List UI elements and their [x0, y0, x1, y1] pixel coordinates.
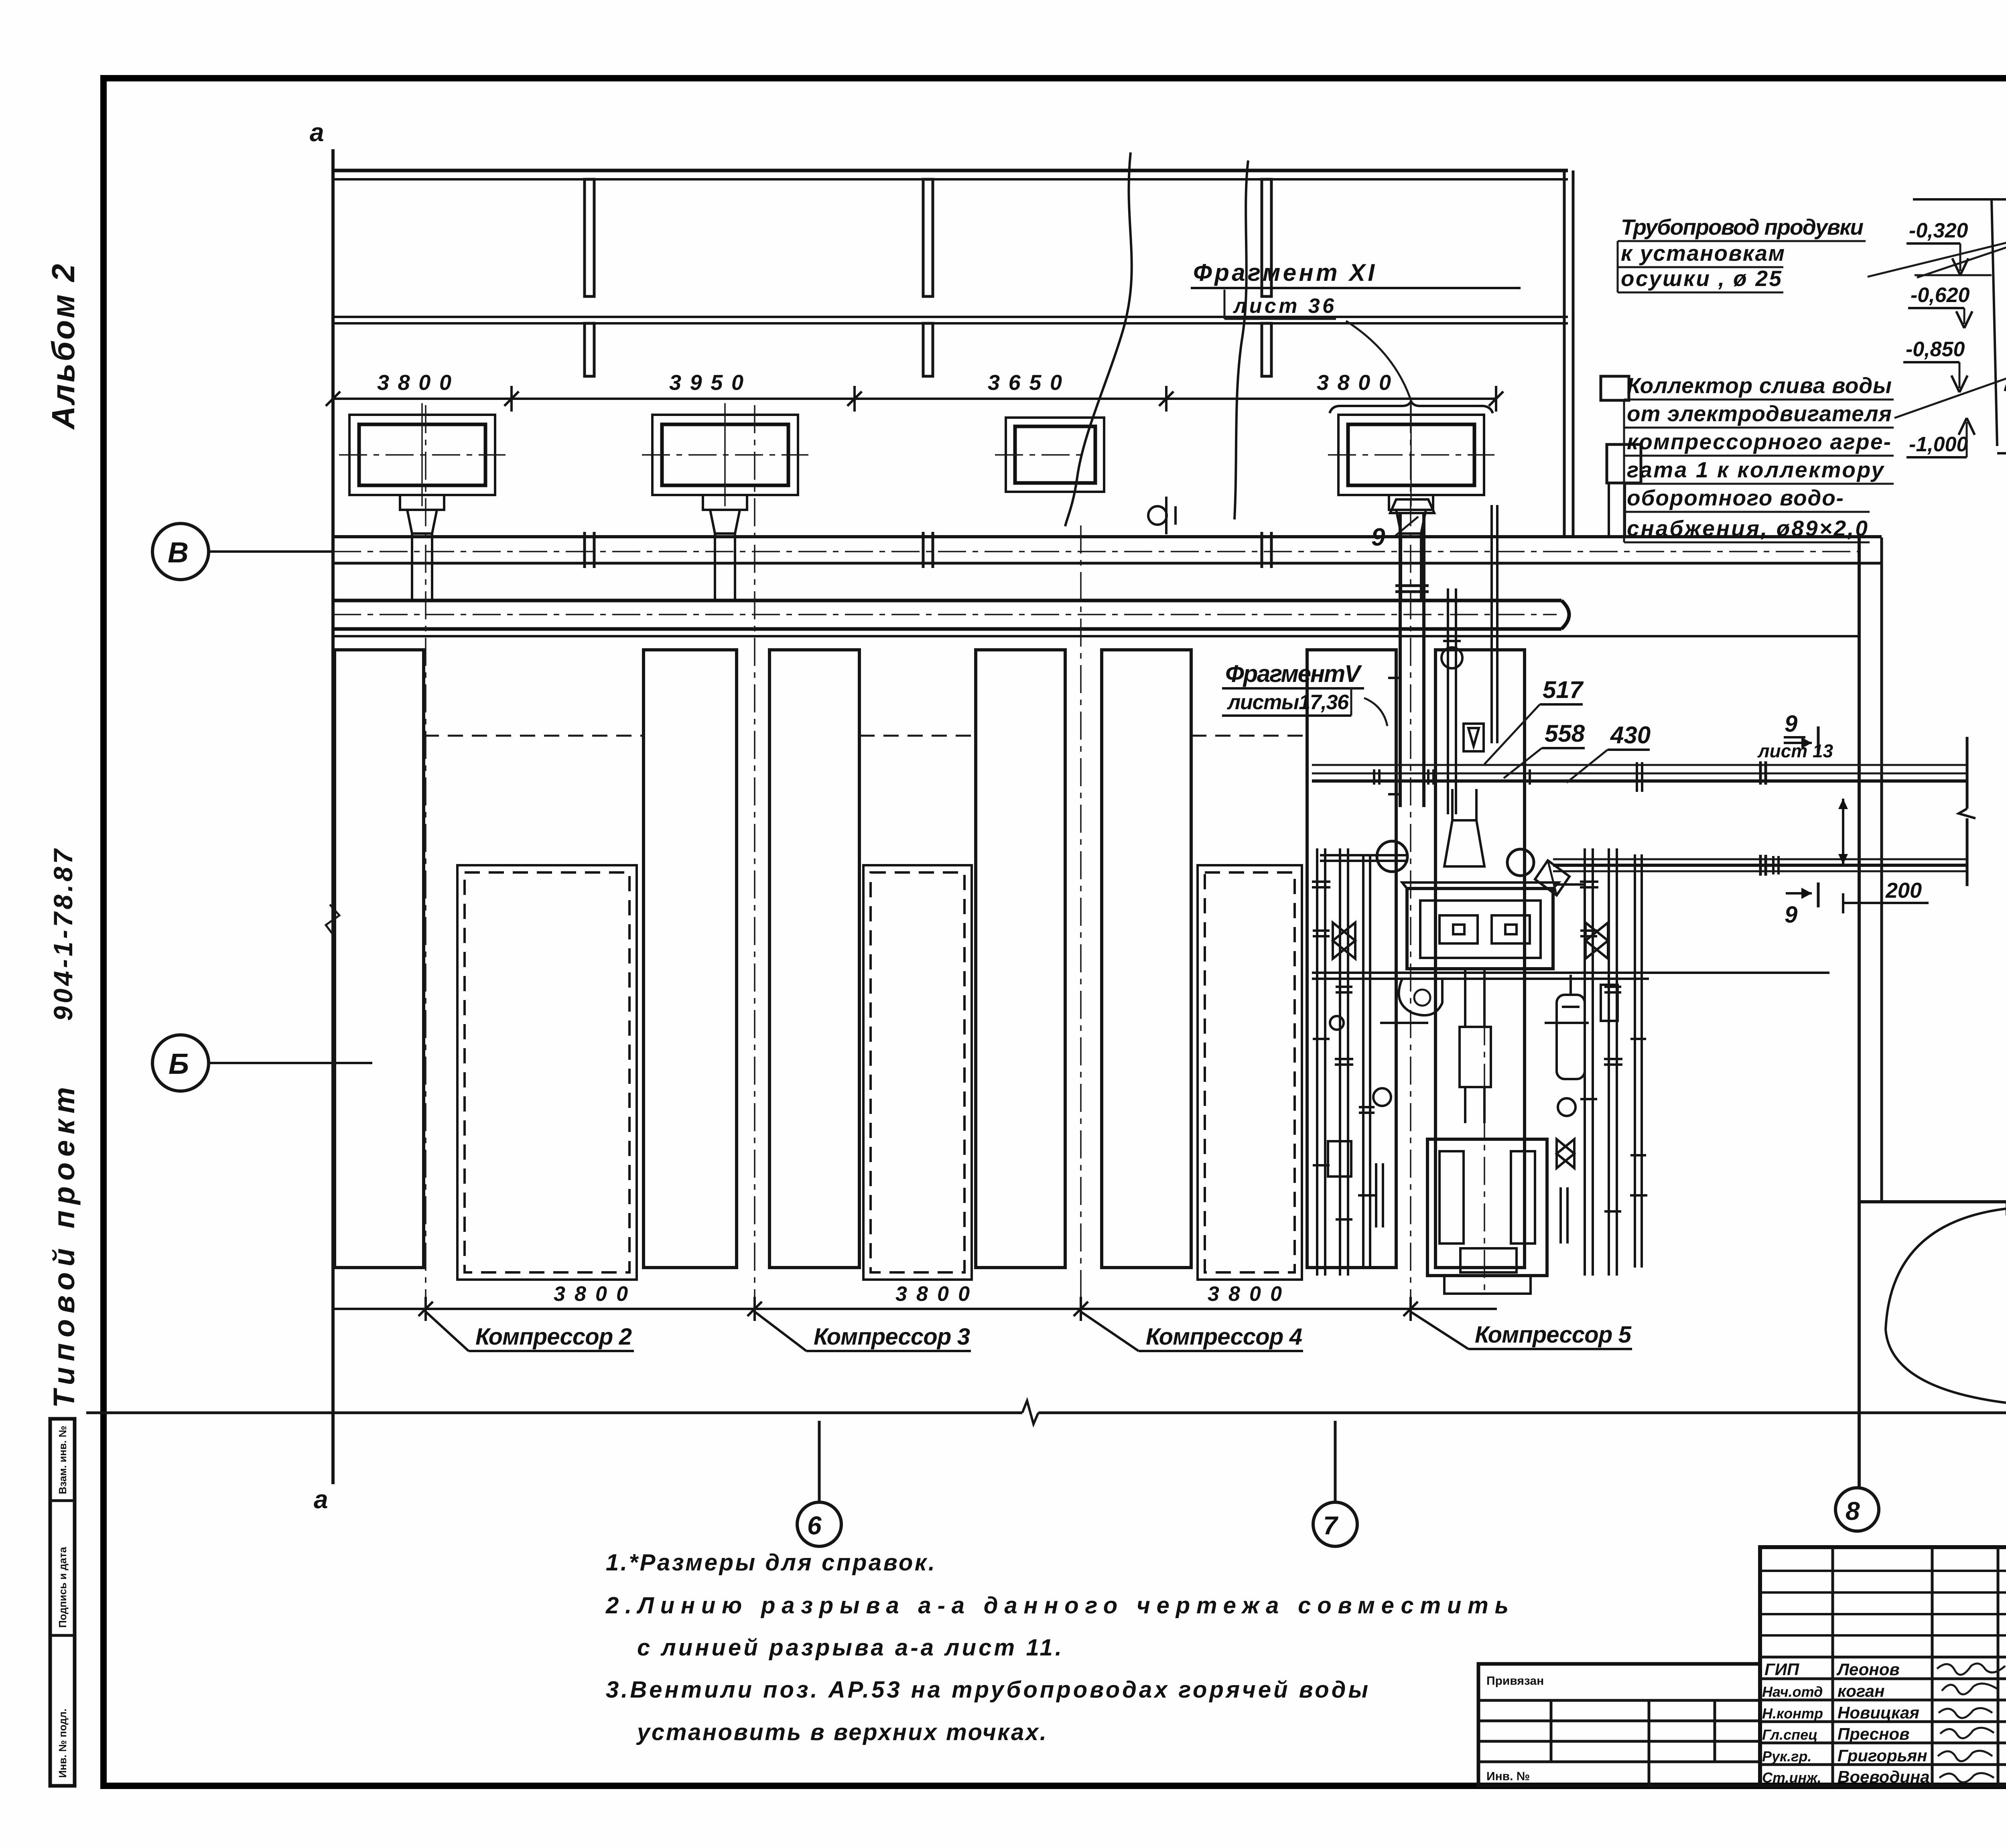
- svg-text:Новицкая: Новицкая: [1837, 1703, 1919, 1722]
- left margin stamp boxes: [50, 1419, 75, 1786]
- svg-text:-0,850: -0,850: [1906, 338, 1965, 361]
- grid stem 7: [1334, 1421, 1337, 1502]
- grid line V: [209, 550, 333, 553]
- svg-text:Инв. № подл.: Инв. № подл.: [57, 1708, 69, 1778]
- svg-text:ГИП: ГИП: [1764, 1660, 1799, 1679]
- lower machine assembly: [1427, 1139, 1547, 1294]
- svg-text:-1,000: -1,000: [1909, 433, 1968, 456]
- svg-text:2.Линию разрыва а-а данного: 2.Линию разрыва а-а данного чертежа совм…: [605, 1592, 1509, 1619]
- foundation pit 3 (dashed): [1198, 865, 1302, 1280]
- svg-text:6: 6: [807, 1511, 822, 1540]
- small wall box right 2: [1607, 444, 1641, 483]
- svg-text:9: 9: [1785, 902, 1797, 928]
- drain pipes to wall: [2005, 361, 2006, 395]
- foundation strip 7: [1435, 650, 1525, 1268]
- svg-text:7: 7: [1323, 1511, 1339, 1540]
- text: pipe blowdown to drying units (3 lines, underlined): [1618, 215, 1866, 292]
- motor unit compressor 4 (partial at break): [995, 418, 1104, 492]
- label Kompressor 3: [755, 1312, 806, 1351]
- svg-text:В: В: [168, 537, 189, 569]
- svg-text:установить в верхних точках: установить в верхних точках.: [636, 1719, 1046, 1745]
- pump below machine: [1399, 979, 1442, 1015]
- svg-text:Григорьян: Григорьян: [1837, 1746, 1927, 1765]
- signature table: [1760, 1547, 2006, 1786]
- svg-text:Инв. №: Инв. №: [1486, 1770, 1530, 1783]
- svg-text:Леонов: Леонов: [1836, 1660, 1900, 1679]
- grid circle V (plan): [152, 523, 209, 580]
- leader from Fragment XI label to motor 5: [1346, 321, 1412, 404]
- small fitting box: [1464, 724, 1484, 751]
- dimension line top (3800 3950 3650 3800): [333, 398, 1497, 400]
- wall segment at door: [1859, 1200, 2006, 1203]
- svg-text:Компрессор 4: Компрессор 4: [1146, 1324, 1302, 1350]
- grid circle 6: [797, 1502, 841, 1546]
- foundation strip 2: [644, 650, 737, 1268]
- level mark -1,000: [1907, 418, 1975, 457]
- level mark -0,850: [1903, 338, 1967, 392]
- thin line under pipe: [333, 635, 1859, 637]
- level mark -0,320: [1907, 219, 1968, 275]
- svg-text:1.*Размеры для справок.: 1.*Размеры для справок.: [606, 1550, 935, 1576]
- svg-text:-0,320: -0,320: [1909, 219, 1968, 242]
- ground line with break: [86, 1412, 1022, 1414]
- compressor 5 machine body (plan): [1402, 882, 1559, 969]
- svg-text:коган: коган: [1837, 1682, 1885, 1700]
- svg-text:Н.контр: Н.контр: [1762, 1705, 1823, 1722]
- grid circle 8: [1835, 1488, 1879, 1531]
- compressor axis line 3: [754, 405, 755, 1312]
- grid circle B (plan): [152, 1035, 209, 1091]
- vertical break wavy line 2: [1234, 160, 1248, 519]
- leader from blowdown text to pipe in section 3-3: [1868, 192, 2006, 277]
- svg-text:ФрагментV: ФрагментV: [1225, 660, 1362, 687]
- level mark -0,620: [1908, 284, 1972, 328]
- svg-text:430: 430: [1610, 722, 1651, 749]
- wall pilaster 1 upper: [585, 179, 594, 296]
- svg-text:Компрессор 3: Компрессор 3: [814, 1324, 970, 1350]
- horizontal pipes to section 9 (upper run): [1312, 764, 1967, 766]
- floor line: [1913, 198, 2006, 201]
- grid stem 6: [818, 1421, 821, 1502]
- svg-text:Нач.отд: Нач.отд: [1762, 1684, 1823, 1700]
- svg-text:от электродвигателя: от электродвигателя: [1627, 401, 1892, 426]
- svg-text:Привязан: Привязан: [1486, 1674, 1544, 1688]
- foundation pit 2 (dashed): [863, 865, 972, 1280]
- pipes dropping right of wall: [1608, 483, 1610, 537]
- foundation strip 4: [976, 650, 1065, 1268]
- compressor 5 discharge pipe (large vertical): [1388, 499, 1434, 807]
- section cut line with break (right end of pipes): [1966, 737, 1969, 809]
- svg-text:Коллектор слива воды: Коллектор слива воды: [1627, 373, 1892, 398]
- horizontal pipes lower run: [1553, 858, 1967, 860]
- motor unit compressor 2: [339, 403, 506, 600]
- extra fittings compressor 5 cluster: [1313, 762, 1779, 1296]
- vertical dim arrow between pipe runs: [1842, 799, 1844, 864]
- label Kompressor 4: [1081, 1312, 1139, 1351]
- grid line 8 (right wall axis): [1858, 538, 1861, 1488]
- top wall of hall (double line): [332, 169, 1568, 172]
- level line -0.320: [1915, 274, 1992, 276]
- svg-text:9: 9: [1785, 711, 1797, 737]
- leader from collector text to section 3-3 ball: [1894, 346, 2006, 418]
- svg-text:558: 558: [1545, 720, 1585, 747]
- column marks on V wall: [585, 532, 1271, 568]
- svg-text:Трубопровод продувки: Трубопровод продувки: [1621, 215, 1864, 239]
- horizontal distribution pipes at compressor 5: [1312, 973, 1829, 1023]
- svg-text:Рук.гр.: Рук.гр.: [1762, 1748, 1812, 1765]
- tilted square fitting: [1535, 860, 1569, 895]
- svg-text:листы17,36: листы17,36: [1226, 691, 1349, 714]
- grid circle 7: [1313, 1502, 1357, 1546]
- motor unit compressor 3: [642, 403, 808, 600]
- right pipe column group of compressor 5: [1580, 848, 1647, 1276]
- compressor axis line 5: [1410, 405, 1411, 1312]
- wall pilaster 3 lower: [1262, 323, 1271, 376]
- svg-text:а: а: [310, 118, 324, 147]
- bowtie valve left: [1333, 923, 1355, 959]
- notes text: [605, 1550, 1509, 1745]
- wall pilaster 3 upper: [1262, 179, 1271, 296]
- signature scribbles: [1937, 1663, 2005, 1782]
- wall pilaster 2 upper: [923, 179, 933, 296]
- misc small fittings: [1373, 1088, 1576, 1243]
- separator vessel right: [1557, 975, 1618, 1079]
- svg-text:200: 200: [1885, 878, 1922, 903]
- label Kompressor 2: [426, 1312, 469, 1351]
- vertical pipe right of discharge: [1447, 588, 1449, 814]
- svg-text:904-1-78.87: 904-1-78.87: [48, 848, 78, 1021]
- svg-text:517: 517: [1543, 676, 1584, 703]
- svg-text:-0,620: -0,620: [1911, 284, 1970, 307]
- svg-text:лист 13: лист 13: [1757, 740, 1833, 761]
- svg-text:8: 8: [1846, 1497, 1860, 1525]
- svg-text:гата 1 к коллектору: гата 1 к коллектору: [1627, 457, 1884, 482]
- foundation strip 1: [335, 650, 424, 1268]
- svg-text:Взам. инв. №: Взам. инв. №: [57, 1426, 69, 1494]
- small pump symbol near axis of compressor 4: [1148, 506, 1167, 525]
- grid line B: [209, 1062, 372, 1064]
- svg-text:Гл.спец: Гл.спец: [1762, 1726, 1817, 1743]
- section mark 9 (lower): [1786, 892, 1812, 895]
- break mark on line a: [326, 905, 339, 935]
- valve circle on that pipe: [1442, 647, 1462, 668]
- V-row wall of hall (double line): [332, 535, 1882, 538]
- motor unit compressor 5: [1328, 403, 1494, 600]
- center pipes below machine: [1460, 969, 1491, 1123]
- wall pilaster 1 lower: [585, 323, 594, 376]
- svg-text:с линией разрыва а-а лист 1: с линией разрыва а-а лист 11.: [637, 1635, 1062, 1661]
- door swing arcs: [1886, 1209, 2006, 1330]
- svg-text:Ст.инж.: Ст.инж.: [1762, 1769, 1821, 1786]
- left pipe column group of compressor 5: [1312, 848, 1375, 1276]
- svg-text:Воеводина: Воеводина: [1837, 1767, 1930, 1786]
- text: collector of water drain (6 lines, underlined): [1624, 373, 1894, 542]
- privyazan table: [1478, 1664, 1760, 1786]
- svg-text:осушки , ø 25: осушки , ø 25: [1621, 266, 1782, 291]
- right wall of upper hall: [1563, 170, 1566, 538]
- pit walls: [1992, 199, 2006, 453]
- funnel and pipe above machine: [1444, 820, 1484, 866]
- foundation strip 6: [1307, 650, 1396, 1268]
- label Kompressor 5: [1411, 1312, 1468, 1349]
- curly bracket over motor 5: [1330, 401, 1493, 413]
- bottom dimension line (3800 x3): [333, 1308, 1497, 1310]
- dashed connector lines between strips: [424, 735, 644, 737]
- svg-text:компрессорного агре-: компрессорного агре-: [1627, 429, 1891, 454]
- svg-text:оборотного водо-: оборотного водо-: [1627, 485, 1844, 510]
- svg-text:а: а: [314, 1485, 328, 1514]
- foundation strip 5: [1102, 650, 1191, 1268]
- bowtie valve right: [1586, 923, 1608, 959]
- wall pilaster 2 lower: [923, 323, 933, 376]
- svg-text:Подпись и дата: Подпись и дата: [57, 1547, 69, 1628]
- foundation strip 3: [770, 650, 859, 1268]
- svg-text:Компрессор 2: Компрессор 2: [475, 1324, 632, 1350]
- inner gallery line (double): [332, 316, 1568, 318]
- compressor axis line 4: [1080, 525, 1082, 1312]
- svg-text:Преснов: Преснов: [1837, 1724, 1909, 1743]
- main horizontal pipe (thick band): [333, 599, 1561, 602]
- svg-text:Б: Б: [169, 1048, 189, 1080]
- svg-text:Компрессор 5: Компрессор 5: [1475, 1322, 1632, 1348]
- circles on machine top: [1377, 841, 1407, 872]
- foundation pit 1 (dashed): [457, 865, 637, 1280]
- vertical break (razryv) wavy line 1: [1065, 152, 1132, 526]
- small wall box right 1: [1601, 376, 1629, 400]
- compressor axis line 2: [425, 405, 426, 1312]
- svg-text:к установкам: к установкам: [1621, 241, 1785, 266]
- section line a-a (left break line): [331, 149, 335, 1484]
- long thin pipe pair: [1490, 505, 1493, 743]
